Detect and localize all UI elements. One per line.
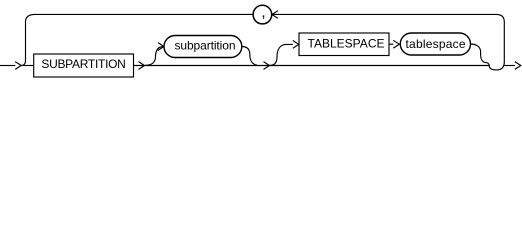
svg-text:tablespace: tablespace (406, 37, 466, 51)
svg-text:TABLESPACE: TABLESPACE (308, 36, 385, 50)
svg-text:SUBPARTITION: SUBPARTITION (41, 57, 126, 71)
svg-text:,: , (261, 4, 265, 21)
svg-text:subpartition: subpartition (175, 39, 236, 53)
